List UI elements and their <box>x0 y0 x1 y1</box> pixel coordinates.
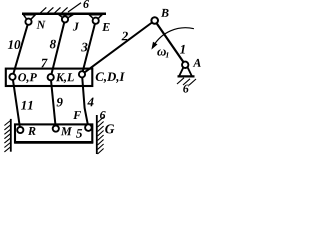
label A <box>193 59 201 67</box>
joint N <box>25 19 31 25</box>
fixed pivot bracket J <box>59 15 73 20</box>
omega_1 rotation arc <box>153 28 194 47</box>
label 6 under A <box>183 85 189 93</box>
label 7 <box>41 59 47 68</box>
omega_1 arrowhead <box>151 42 157 50</box>
label omega_1 <box>157 49 166 55</box>
right guide wall (frame 6) <box>96 115 98 154</box>
label K,L <box>56 73 74 83</box>
fixed pivot A bracket <box>178 67 195 76</box>
label 10 <box>8 40 20 49</box>
label B <box>161 9 169 17</box>
joint B <box>151 17 158 24</box>
label 3 <box>81 43 87 52</box>
label 2 <box>122 32 128 41</box>
label 9 <box>57 98 63 107</box>
joint R <box>17 127 23 133</box>
joint F <box>85 124 92 131</box>
link 8 <box>51 19 65 77</box>
link 9 <box>51 77 56 128</box>
link 4 <box>82 74 88 127</box>
link 11 <box>13 77 21 130</box>
left guide wall (frame 6) <box>10 119 12 152</box>
label 8 <box>50 40 56 49</box>
right wall hatching <box>98 117 104 154</box>
joint K,L <box>48 74 54 80</box>
joint A <box>182 62 188 68</box>
left wall hatching <box>4 121 10 152</box>
label C,D,I <box>96 72 125 83</box>
label 11 <box>21 101 32 110</box>
joint E <box>93 18 99 24</box>
frame label 6 (top) <box>83 0 89 8</box>
link 1 crank <box>155 21 186 65</box>
fixed pivot bracket E <box>89 15 102 21</box>
joint C,D,I <box>79 71 85 77</box>
link 2 <box>82 21 155 75</box>
joint O,P <box>9 74 15 80</box>
joint J <box>62 16 68 22</box>
link 5 bottom edge <box>14 141 93 144</box>
label M <box>61 127 72 135</box>
link 10 <box>13 22 29 77</box>
label 1 <box>180 45 185 54</box>
label O,P <box>18 73 37 83</box>
label 6 right wall <box>100 111 106 119</box>
label 4 <box>87 98 93 107</box>
pivot A hatching <box>177 78 196 85</box>
label N <box>37 21 46 29</box>
top bar hatching <box>40 3 82 14</box>
label G <box>105 124 114 133</box>
link 3 <box>82 21 96 75</box>
label F <box>73 111 81 119</box>
fixed pivot bracket N <box>24 15 36 22</box>
label 5 <box>76 129 82 138</box>
link 7 bar <box>6 69 93 86</box>
frame 6 top bar <box>22 12 106 15</box>
label J <box>73 23 79 31</box>
joint M <box>53 126 59 132</box>
label R <box>28 127 36 135</box>
link 5 slider bar <box>15 124 92 142</box>
label E <box>102 23 110 31</box>
